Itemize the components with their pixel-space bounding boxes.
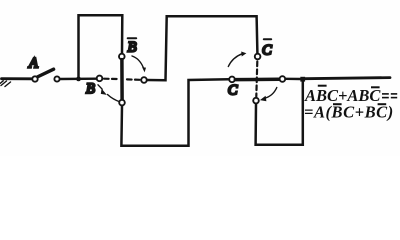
svg-text:C: C (262, 43, 272, 59)
arrow to C top contact (228, 54, 242, 67)
contact B-top circle (119, 54, 125, 60)
svg-text:=A(BC+BC): =A(BC+BC) (304, 103, 394, 122)
contact B bottom circle (119, 100, 125, 106)
dashed link left of bar (104, 78, 117, 81)
output junction square dot (300, 77, 305, 82)
output wire to right edge (305, 78, 390, 79)
broken-end hatching (0, 81, 11, 87)
contact B right circle (141, 77, 147, 83)
arrow to C bottom contact (265, 88, 277, 99)
dashed link right of bar (127, 78, 140, 81)
movable bar C (235, 78, 279, 82)
overbar over B term1 (318, 85, 327, 87)
svg-text:A: A (28, 56, 38, 72)
movable bar B (120, 60, 124, 100)
wire top loop 1 (79, 15, 123, 79)
dashed vertical link C (256, 62, 257, 97)
overbar over B in parens (333, 103, 342, 105)
wire A to B group (60, 77, 96, 80)
svg-text:B: B (86, 81, 95, 97)
left lead-in wire (2, 77, 32, 80)
wire bottom loop B (121, 79, 229, 146)
wire C right to output junction (286, 78, 301, 81)
contact C right circle (280, 76, 286, 82)
overbar over C in parens (378, 103, 387, 105)
arrow to B right contact (132, 56, 143, 68)
overbar over C term2 (371, 86, 380, 88)
contact C left circle (229, 77, 235, 83)
svg-text:C: C (228, 83, 238, 99)
svg-text:B: B (128, 40, 137, 56)
junction dot (76, 77, 81, 82)
formula line 2: =A(BC+BC) (304, 103, 394, 122)
formula line 1: ABC+ABC== (304, 85, 397, 105)
switch A left contact circle (32, 76, 37, 81)
contact B left circle (97, 76, 103, 82)
switch A blade (38, 69, 54, 76)
wire bottom loop C (256, 81, 303, 145)
switch A right contact circle (54, 76, 59, 81)
contact C bottom circle (253, 98, 259, 104)
arrow to B contact (98, 85, 120, 102)
trailing double equals (382, 93, 389, 95)
wire B right to top loop 2 (147, 16, 257, 80)
contact C top circle (255, 54, 261, 60)
